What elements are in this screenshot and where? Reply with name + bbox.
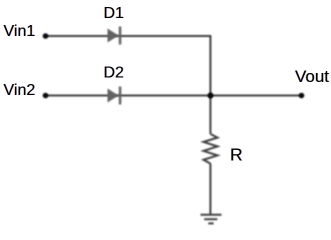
svg-text:Vin1: Vin1 xyxy=(4,23,36,40)
svg-text:D1: D1 xyxy=(104,5,125,22)
svg-text:Vout: Vout xyxy=(295,67,329,86)
svg-text:R: R xyxy=(230,145,243,165)
svg-text:D2: D2 xyxy=(104,65,125,82)
svg-text:Vin2: Vin2 xyxy=(4,82,36,99)
